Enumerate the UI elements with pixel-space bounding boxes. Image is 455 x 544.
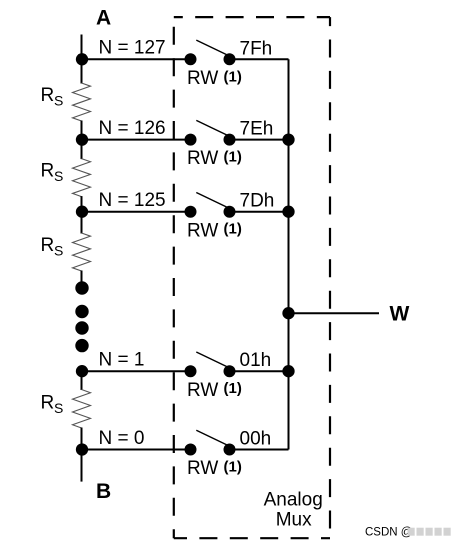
analog mux dashed box	[174, 17, 330, 538]
wire tap 126 to switch	[82, 139, 191, 141]
label RS 2	[41, 161, 64, 184]
svg-text:R: R	[41, 161, 55, 182]
svg-text:S: S	[54, 168, 63, 184]
svg-text:N = 125: N = 125	[99, 190, 166, 211]
resistor RS 1	[73, 59, 91, 139]
svg-text:RW: RW	[187, 458, 218, 479]
svg-text:N = 126: N = 126	[99, 118, 166, 139]
svg-text:S: S	[54, 92, 63, 108]
svg-text:(1): (1)	[224, 380, 242, 397]
svg-text:RW: RW	[187, 68, 218, 89]
switch RW 01h	[185, 352, 236, 377]
resistor RS 3	[73, 212, 91, 282]
wire tap 127 to switch	[82, 58, 191, 60]
svg-text:Mux: Mux	[276, 510, 312, 531]
svg-text:Analog: Analog	[264, 490, 323, 511]
svg-text:S: S	[54, 400, 63, 416]
ellipsis dots ladder continuation	[75, 305, 88, 353]
svg-text:R: R	[41, 235, 55, 256]
svg-text:RW: RW	[187, 220, 218, 241]
watermark	[365, 527, 451, 539]
node N=126 tap	[76, 133, 88, 145]
wire switch 7Dh to bus	[230, 211, 289, 213]
node N=1 tap	[76, 365, 88, 377]
svg-text:S: S	[54, 243, 63, 259]
svg-text:W: W	[390, 303, 410, 326]
svg-text:R: R	[41, 393, 55, 414]
svg-text:RW: RW	[187, 148, 218, 169]
wire tap 0 to switch	[82, 449, 191, 451]
switch RW 7Fh	[185, 40, 236, 65]
node N=127 tap	[76, 53, 88, 65]
wire switch 00h to bus	[230, 449, 289, 451]
label Analog Mux	[264, 490, 323, 531]
switch RW 7Eh	[185, 120, 236, 145]
node bus junction 7Eh	[282, 133, 294, 145]
node N=125 tap	[76, 206, 88, 218]
node bus junction 01h	[282, 365, 294, 377]
switch RW 7Dh	[185, 193, 236, 218]
svg-text:CSDN @: CSDN @	[365, 527, 412, 539]
svg-text:R: R	[41, 85, 55, 106]
resistor RS 2	[73, 140, 91, 212]
label RS 4	[41, 393, 64, 416]
wire analog mux output bus	[288, 59, 290, 449]
node bus junction 7Dh	[282, 206, 294, 218]
svg-text:(1): (1)	[224, 221, 242, 238]
svg-text:00h: 00h	[240, 429, 272, 450]
wire W output	[289, 312, 380, 314]
wire terminal B stub	[81, 450, 83, 482]
svg-text:(1): (1)	[224, 149, 242, 166]
svg-text:(1): (1)	[224, 459, 242, 476]
svg-text:01h: 01h	[240, 350, 272, 371]
svg-text:7Eh: 7Eh	[240, 119, 274, 140]
svg-text:7Fh: 7Fh	[240, 38, 273, 59]
wire switch 7Eh to bus	[230, 139, 289, 141]
node N=0 tap	[76, 443, 88, 455]
svg-text:RW: RW	[187, 380, 218, 401]
node ladder continuation end	[75, 281, 88, 294]
wire tap 125 to switch	[82, 211, 191, 213]
svg-text:(1): (1)	[224, 68, 242, 85]
svg-text:N = 127: N = 127	[99, 38, 166, 59]
node W junction	[282, 307, 294, 319]
label RS 1	[41, 85, 64, 108]
wire terminal A stub	[81, 35, 83, 60]
resistor RS 4	[73, 371, 91, 449]
svg-text:N = 0: N = 0	[99, 428, 145, 449]
svg-text:B: B	[96, 480, 111, 503]
wire switch 7Fh to bus	[230, 58, 289, 60]
label RS 3	[41, 235, 64, 258]
wire tap 1 to switch	[82, 370, 191, 372]
svg-text:N = 1: N = 1	[99, 350, 145, 371]
svg-text:7Dh: 7Dh	[240, 191, 275, 212]
wire switch 01h to bus	[230, 370, 289, 372]
svg-text:A: A	[96, 6, 111, 29]
switch RW 00h	[185, 430, 236, 455]
